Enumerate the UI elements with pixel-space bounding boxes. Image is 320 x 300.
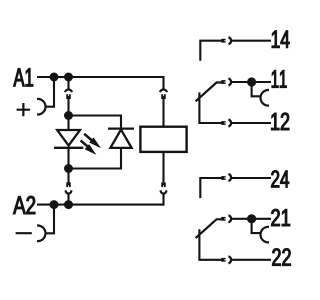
LED D1 cathode bar bbox=[54, 147, 83, 149]
LED light emission arrow 2 bbox=[81, 140, 97, 155]
plus sign polarity mark bbox=[17, 103, 31, 116]
plug-in connector socket (LED branch bottom) bbox=[66, 190, 72, 193]
node junction dot LED/diode top bbox=[64, 111, 73, 120]
plug-in connector pin (LED branch top) bbox=[66, 94, 71, 99]
cage clamp terminal plus bbox=[37, 99, 45, 115]
terminal label A1 bbox=[13, 68, 32, 86]
plug-in connector pin (12) bbox=[221, 121, 225, 125]
wire diode branch bottom bbox=[69, 148, 122, 169]
plug-in connector pin (LED branch bottom) bbox=[66, 182, 71, 187]
plug-in connector pin (coil top) bbox=[161, 94, 166, 99]
wire connector to LED node bbox=[67, 99, 69, 116]
contact 2 NO fixed contact wire (terminal 24 branch) bbox=[200, 178, 221, 198]
wire socket to node 11 bbox=[231, 81, 271, 83]
plug-in connector socket (LED branch top) bbox=[65, 89, 72, 92]
wire A2 to minus clamp bbox=[45, 205, 54, 234]
node junction dot terminal 21 bbox=[247, 214, 256, 223]
minus sign polarity mark bbox=[16, 232, 32, 234]
wire A1 to plus clamp bbox=[45, 77, 54, 107]
plug-in connector socket (12) bbox=[228, 120, 231, 127]
freewheeling diode triangle bbox=[110, 130, 131, 148]
plug-in connector socket (14) bbox=[228, 37, 231, 44]
wire coil connector to A2 rail bbox=[161, 194, 164, 204]
terminal label 21 bbox=[271, 209, 290, 226]
wire diode branch top bbox=[69, 116, 122, 128]
wire LED node to connector bbox=[67, 169, 69, 183]
wire A1 rail bbox=[37, 76, 164, 78]
wire connector to A2 rail bbox=[67, 194, 69, 204]
wire A1 rail to coil connector bbox=[161, 77, 164, 89]
terminal label 14 bbox=[272, 31, 289, 48]
plug-in connector socket (coil bottom) bbox=[161, 190, 167, 193]
plug-in connector socket (21) bbox=[228, 215, 231, 222]
terminal label 24 bbox=[271, 170, 289, 187]
plug-in connector socket (24) bbox=[228, 174, 231, 181]
terminal label 22 bbox=[272, 248, 290, 265]
wire A1 dot to connector bbox=[67, 77, 69, 89]
plug-in connector socket (coil top) bbox=[160, 89, 167, 92]
wire node 11 to clamp bbox=[252, 82, 261, 96]
cage clamp terminal 11 bbox=[260, 90, 268, 106]
contact 1 NC fixed contact wire (terminal 12 branch) bbox=[199, 92, 221, 123]
wire connector to coil bbox=[162, 99, 164, 127]
node junction dot A2/minus bbox=[50, 200, 59, 209]
contact 2 NC fixed contact wire (terminal 22 branch) bbox=[199, 229, 221, 260]
wire LED cathode lead bbox=[67, 148, 69, 169]
relay coil K1 bbox=[140, 127, 186, 152]
plug-in connector pin (22) bbox=[221, 258, 225, 262]
node junction dot A1/plus bbox=[50, 73, 59, 82]
wire coil bottom lead bbox=[162, 152, 164, 182]
plug-in connector socket (22) bbox=[228, 256, 231, 263]
plug-in connector socket (11) bbox=[228, 79, 231, 86]
plug-in connector pin (11) bbox=[221, 80, 225, 84]
node junction dot LED/diode bottom bbox=[64, 164, 73, 173]
wire LED anode lead bbox=[67, 116, 69, 131]
node junction dot terminal 11 bbox=[247, 77, 256, 86]
contact 1 NO fixed contact wire (terminal 14 branch) bbox=[200, 41, 221, 61]
wire socket to label 12 bbox=[231, 122, 271, 124]
LED D1 triangle bbox=[57, 130, 80, 146]
plug-in connector pin (coil bottom) bbox=[161, 182, 166, 187]
wire socket to label 22 bbox=[231, 259, 271, 261]
contact 1 moving arm (common 11) bbox=[196, 83, 222, 102]
wire socket to label 24 bbox=[231, 177, 271, 179]
terminal label 11 bbox=[272, 70, 287, 87]
terminal label A2 bbox=[13, 196, 35, 214]
node junction dot A1/LED branch bbox=[64, 73, 73, 82]
node junction dot A2/LED branch bbox=[64, 200, 73, 209]
wire socket to label 14 bbox=[231, 40, 271, 42]
terminal label 12 bbox=[271, 113, 289, 130]
wire node 21 to clamp bbox=[252, 219, 261, 233]
freewheeling diode cathode bar bbox=[108, 127, 134, 129]
wire A2 rail bbox=[37, 204, 164, 206]
plug-in connector pin (21) bbox=[221, 217, 225, 221]
cage clamp terminal 21 bbox=[260, 227, 268, 243]
wire socket to node 21 bbox=[231, 218, 271, 220]
plug-in connector pin (14) bbox=[221, 39, 225, 43]
plug-in connector pin (24) bbox=[221, 176, 225, 180]
LED light emission arrow 1 bbox=[84, 134, 101, 149]
contact 2 moving arm (common 21) bbox=[196, 219, 222, 238]
cage clamp terminal minus bbox=[37, 226, 45, 242]
